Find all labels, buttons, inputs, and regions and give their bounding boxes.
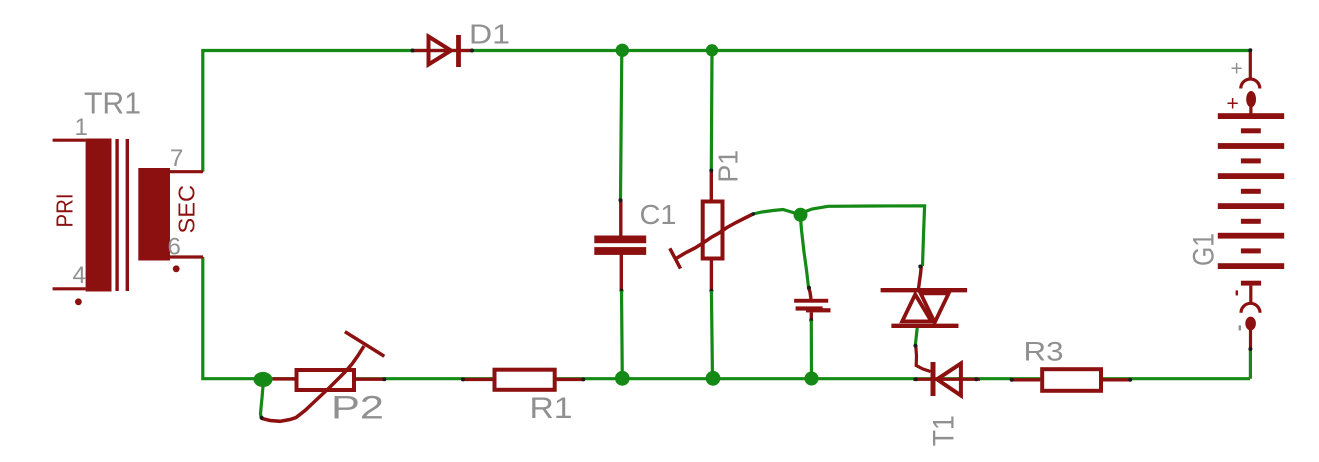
svg-text:PRI: PRI xyxy=(52,194,78,228)
wire bottom horizontal net xyxy=(202,377,1251,380)
wire junction down to P2 wiper xyxy=(261,386,264,418)
wire diac to T1 gate xyxy=(915,328,917,346)
pin dot P1 wiper end xyxy=(752,212,756,216)
svg-text:R1: R1 xyxy=(530,392,573,425)
svg-text:R3: R3 xyxy=(1024,337,1064,367)
svg-text:G1: G1 xyxy=(1188,233,1221,266)
battery G1 cells xyxy=(1218,113,1284,269)
wire top horizontal net xyxy=(202,49,1251,52)
transformer TR1 primary winding xyxy=(53,139,112,292)
svg-text:D1: D1 xyxy=(469,19,510,50)
battery G1 bottom contact plate xyxy=(1241,281,1261,286)
TR1 pin dot below pin 4 xyxy=(75,298,82,305)
svg-text:SEC: SEC xyxy=(174,185,200,234)
battery G1 bottom clip button xyxy=(1245,317,1256,331)
thyristor T1 xyxy=(913,344,980,396)
junction bottom at C1 branch xyxy=(615,371,630,386)
resistor R1 xyxy=(461,370,585,390)
junction bottom at P1 branch xyxy=(706,371,721,386)
battery G1 top clip button xyxy=(1246,91,1256,107)
potentiometer P1 xyxy=(703,169,723,293)
P1 wiper arrow xyxy=(670,214,753,269)
wire left vertical to TR1 pin 7 xyxy=(201,49,204,172)
junction top at C1 branch xyxy=(616,44,629,57)
battery G1 bottom clip arc xyxy=(1241,303,1260,313)
svg-text:TR1: TR1 xyxy=(84,86,141,121)
resistor R3 xyxy=(1010,369,1132,391)
diode D1 xyxy=(411,35,475,67)
svg-text:6: 6 xyxy=(168,234,181,261)
wire battery bottom vertical xyxy=(1249,349,1252,379)
wire node to diac xyxy=(804,206,925,266)
svg-text:1: 1 xyxy=(75,114,88,141)
battery G1 bottom lead xyxy=(1249,330,1252,349)
svg-text:C1: C1 xyxy=(640,199,677,230)
battery G1 top clip arc xyxy=(1241,79,1260,89)
transformer TR1 secondary winding xyxy=(138,168,203,261)
P2 wiper arrow xyxy=(260,332,385,422)
wire C1 branch lower xyxy=(620,291,624,379)
potentiometer P2 xyxy=(273,370,387,390)
thyristor T1 gate lead xyxy=(916,346,931,372)
wire P1 branch upper xyxy=(710,51,714,171)
svg-text:7: 7 xyxy=(170,145,183,172)
svg-text:+: + xyxy=(1227,93,1239,116)
capacitor C1 xyxy=(594,198,646,292)
capacitor C2 xyxy=(794,286,830,323)
battery polarity - red (rotated) xyxy=(1236,290,1238,295)
TR1 pin dot below pin 6 xyxy=(173,265,180,272)
junction node wiper xyxy=(794,208,808,222)
diac xyxy=(881,265,968,326)
wire P1 branch lower xyxy=(711,291,712,379)
svg-text:4: 4 xyxy=(73,262,86,289)
battery G1 pin dots xyxy=(1248,48,1252,52)
svg-text:P1: P1 xyxy=(713,150,744,183)
wire C1 branch upper xyxy=(621,51,622,201)
wire left vertical from TR1 pin 6 xyxy=(201,257,204,380)
diac lead upper xyxy=(919,266,922,289)
battery pin name - bottom (rotated) xyxy=(1239,325,1241,330)
wire node to small capacitor xyxy=(801,218,809,288)
transformer TR1 core xyxy=(117,139,127,291)
svg-text:P2: P2 xyxy=(331,390,384,426)
wire small capacitor to bottom net xyxy=(810,321,813,379)
svg-text:+: + xyxy=(1231,58,1243,81)
junction at P2 left xyxy=(254,372,273,387)
svg-text:T1: T1 xyxy=(928,415,961,446)
junction bottom at small capacitor xyxy=(805,372,819,386)
battery G1 top lead xyxy=(1249,51,1252,79)
wire P1 wiper to node xyxy=(753,210,800,215)
battery G1 top stem xyxy=(1249,106,1252,114)
battery G1 bottom stem xyxy=(1249,286,1252,304)
junction top at P1 branch xyxy=(706,44,718,56)
